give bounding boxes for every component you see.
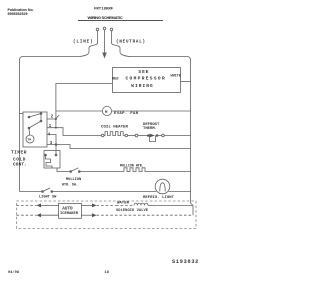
defrost coil heater [101, 126, 129, 130]
wire terminal 4 down to cold control [47, 135, 56, 156]
wire right bus [190, 60, 192, 202]
plug prong L1 [96, 28, 99, 31]
svg-text:(NEUTRAL): (NEUTRAL) [116, 40, 146, 45]
terminal 2 [51, 116, 54, 120]
svg-text:WIRING SCHEMATIC: WIRING SCHEMATIC [88, 15, 123, 20]
timer label [11, 151, 27, 156]
light switch [20, 191, 42, 193]
ground arrow [102, 53, 107, 59]
wire mullion to right bus [148, 171, 191, 173]
wire defrost row to right bus [164, 135, 190, 137]
svg-text:1: 1 [49, 125, 52, 129]
svg-text:HTR. SW.: HTR. SW. [62, 183, 78, 187]
svg-text:COMPRESSOR: COMPRESSOR [126, 76, 167, 82]
svg-text:CONT.: CONT. [13, 163, 27, 168]
svg-text:TM: TM [27, 139, 31, 142]
svg-text:04/98: 04/98 [8, 270, 20, 275]
svg-text:WHITE: WHITE [171, 75, 182, 79]
wire terminal 1 to defrost row [47, 128, 101, 136]
label EVAP. FAN [114, 112, 139, 116]
header model number [94, 8, 114, 12]
mullion heater switch [70, 171, 72, 173]
label RED [112, 77, 119, 81]
svg-text:COIL HEATER: COIL HEATER [101, 126, 129, 130]
title WIRING SCHEMATIC [88, 15, 123, 20]
label (NEUTRAL) [116, 40, 146, 45]
plug prong N [110, 28, 113, 31]
label (LINE) [73, 40, 93, 45]
footer doc number [172, 259, 199, 265]
timer internal contacts [28, 116, 30, 118]
terminal 1 [49, 125, 52, 129]
compressor box [113, 68, 181, 93]
icemaker connector row B left [17, 214, 37, 216]
svg-text:TIMER: TIMER [11, 151, 27, 156]
wire solenoid to bus [148, 204, 193, 206]
footer date [8, 270, 20, 275]
wire white lead to right bus [181, 81, 191, 83]
svg-text:REFRIG. LIGHT: REFRIG. LIGHT [143, 196, 175, 200]
title rule [78, 20, 163, 22]
cold control bellows [46, 155, 53, 168]
svg-text:LIGHT SW: LIGHT SW [39, 195, 57, 199]
svg-text:RED: RED [112, 77, 119, 81]
wire red lead to compressor [56, 84, 113, 128]
auto icemaker box [59, 203, 82, 218]
wire solenoid branch vertical [192, 205, 194, 215]
icemaker connector row A left [17, 204, 37, 206]
svg-text:SEE: SEE [138, 69, 149, 75]
svg-text:THERM.: THERM. [143, 127, 157, 131]
svg-text:S193832: S193832 [172, 259, 199, 265]
terminal 4 [48, 133, 51, 137]
plug prong ground [103, 27, 106, 30]
svg-text:AUTO: AUTO [62, 206, 73, 211]
footer page number [105, 271, 110, 275]
label WHITE [171, 75, 182, 79]
svg-text:M: M [105, 111, 108, 115]
wire cold control out [57, 168, 70, 172]
defrost thermostat [143, 123, 160, 131]
wire neutral side s-curve to right bus [112, 43, 191, 60]
node T3/T4 junction [55, 144, 57, 146]
wire bus stub to timer [20, 113, 24, 115]
icemaker connector row B right [81, 214, 92, 216]
wire coil heater to defrost therm [128, 135, 136, 137]
svg-text:18: 18 [105, 271, 110, 275]
svg-text:ICEMAKER: ICEMAKER [60, 212, 79, 216]
svg-text:MULLION HTR.: MULLION HTR. [120, 163, 144, 167]
terminal 3 [50, 142, 53, 146]
evap fan motor [102, 106, 111, 115]
dashed optional enclosure [17, 201, 197, 229]
wire light row [53, 191, 157, 193]
svg-text:WIRING: WIRING [131, 83, 154, 89]
svg-text:4: 4 [48, 133, 51, 137]
wire evap fan row [56, 110, 103, 112]
wire mullion row [80, 171, 124, 173]
wire terminal 3 row to right bus [47, 145, 191, 149]
svg-text:WATER: WATER [117, 201, 130, 205]
svg-text:5995352529: 5995352529 [8, 12, 28, 16]
timer motor TM [26, 135, 34, 143]
svg-text:3: 3 [50, 142, 53, 146]
wire bus to solenoid [191, 202, 194, 206]
svg-text:EVAP. FAN: EVAP. FAN [114, 112, 139, 116]
icemaker connector row A right [81, 204, 92, 206]
header publication number [8, 8, 34, 16]
svg-text:SOLENOID VALVE: SOLENOID VALVE [116, 209, 149, 213]
svg-text:FRT18KRF: FRT18KRF [94, 8, 114, 12]
wire left bus [19, 60, 21, 192]
svg-text:MULLION: MULLION [66, 178, 81, 182]
cold control box [44, 151, 60, 169]
mullion heater [120, 163, 144, 167]
refrigerator light lamp [155, 179, 170, 194]
water solenoid coil [117, 201, 130, 205]
timer box [23, 112, 47, 147]
wire lamp to right bus [169, 191, 191, 193]
wire line side s-curve to left bus [20, 43, 98, 60]
svg-text:(LINE): (LINE) [73, 40, 93, 45]
